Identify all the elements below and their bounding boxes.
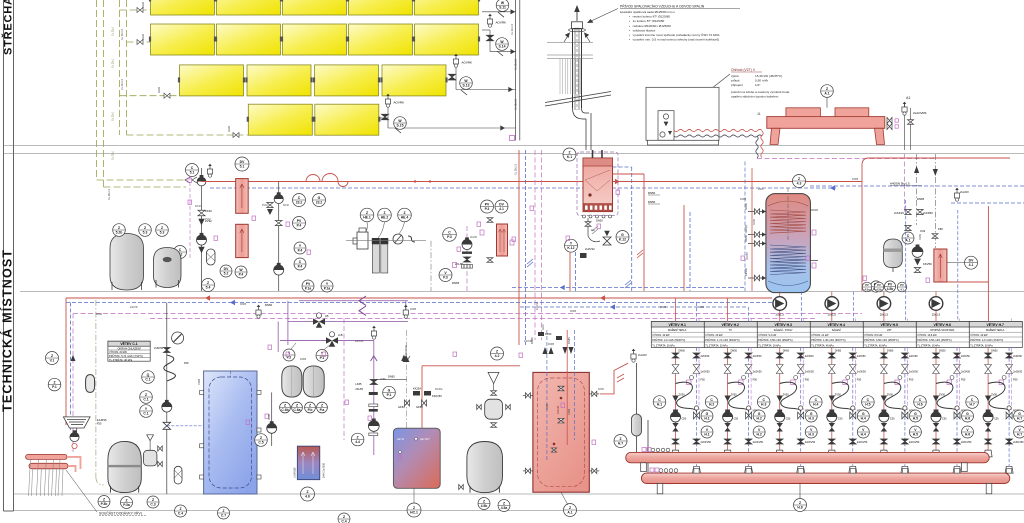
svg-text:C.4: C.4 [178, 511, 183, 515]
svg-text:VÝKON: 5,4 kW: VÝKON: 5,4 kW [758, 334, 777, 337]
svg-text:výkon: výkon [731, 74, 739, 78]
svg-text:H.5: H.5 [913, 432, 918, 436]
filter cartridge 1 [372, 238, 380, 244]
svg-text:H.1: H.1 [657, 402, 662, 406]
expansion vessel solar small [154, 248, 182, 288]
svg-text:VĚTEV H.1: VĚTEV H.1 [669, 322, 686, 327]
svg-text:S.11: S.11 [499, 6, 506, 10]
svg-text:Z: Z [152, 498, 154, 502]
air intake arrows [564, 34, 569, 42]
svg-text:DN50: DN50 [648, 191, 656, 195]
svg-text:KKV50: KKV50 [746, 252, 749, 260]
svg-text:GK50: GK50 [416, 405, 423, 409]
heat exchanger HX4 [934, 249, 947, 282]
svg-text:H.7: H.7 [618, 441, 623, 445]
svg-text:SOUČÁST DODÁVKY VŘV): SOUČÁST DODÁVKY VŘV) [99, 511, 142, 516]
return manifold [641, 473, 1009, 483]
svg-text:OTOPNÁ SOUSTAVA: OTOPNÁ SOUSTAVA [930, 329, 955, 332]
gauge Z K.1 [563, 148, 576, 161]
air vent on riser [71, 355, 76, 361]
svg-text:KK32: KK32 [195, 205, 202, 208]
chem dosing vessel [144, 450, 157, 466]
solar circulation pump [197, 233, 207, 245]
gauge Z V.1 [46, 352, 59, 365]
tank stubs [523, 394, 533, 396]
branch circuit H.3 [775, 348, 816, 474]
svg-text:KK50: KK50 [545, 332, 552, 336]
svg-text:AOVRK: AOVRK [462, 61, 473, 65]
svg-text:ZV32: ZV32 [262, 204, 268, 207]
svg-text:KK20: KK20 [228, 125, 231, 132]
riser pipes to plant room right [904, 104, 906, 150]
KK32 valve [198, 210, 205, 216]
chevrons on violet main [359, 296, 366, 315]
expansion vessel right [884, 239, 903, 268]
small dosing vessel right [485, 399, 503, 419]
gauge DV 4.1 [965, 256, 978, 269]
svg-text:H.5: H.5 [913, 416, 918, 420]
svg-text:DN65: DN65 [548, 343, 555, 346]
svg-text:5.2b: 5.2b [116, 230, 123, 234]
VZT internal coil group [658, 111, 674, 141]
svg-text:H.4: H.4 [861, 416, 866, 420]
VRV manifold bar 2 [29, 463, 68, 469]
boiler body [583, 158, 613, 212]
solar downcomer pipes to plant room [97, 0, 187, 187]
VRV manifold bar 1 [26, 454, 67, 459]
svg-text:5.2: 5.2 [224, 271, 229, 275]
svg-text:S.14: S.14 [499, 44, 506, 48]
svg-text:Z: Z [343, 515, 345, 519]
svg-text:H.5: H.5 [865, 402, 870, 406]
svg-text:P.a: P.a [320, 408, 325, 412]
svg-text:4.2: 4.2 [495, 354, 500, 358]
svg-text:VĚTEV H.5: VĚTEV H.5 [881, 322, 898, 327]
manifold sensor pods [642, 448, 678, 473]
svg-text:K.12: K.12 [619, 237, 626, 241]
small pressure vessel [86, 375, 95, 393]
svg-text:• 1x koleno 87° Ø125/80: • 1x koleno 87° Ø125/80 [629, 19, 664, 23]
svg-text:VĚTEV H.2: VĚTEV H.2 [722, 322, 739, 327]
svg-text:Z: Z [103, 497, 105, 501]
note leader arrow [589, 9, 618, 23]
svg-text:25x1,5: 25x1,5 [932, 313, 941, 317]
control wire to branch H.5 valve [906, 319, 908, 322]
svg-text:VÝKON: 20 kW: VÝKON: 20 kW [705, 334, 723, 337]
heating/cooling tank HC.1 [393, 428, 440, 488]
safety valve dial [172, 332, 184, 344]
mixing valve A5 [313, 313, 329, 328]
svg-text:DN50: DN50 [596, 219, 603, 223]
heater block A [786, 108, 821, 117]
svg-text:průtok: průtok [731, 79, 740, 83]
chimney cap [572, 22, 583, 29]
svg-text:A5: A5 [325, 314, 329, 318]
svg-text:Z: Z [383, 211, 385, 215]
lower distribution mains [66, 297, 772, 299]
svg-text:1/2": 1/2" [755, 83, 760, 87]
branch circuit H.7 [983, 348, 1024, 474]
boiler flue stubs [592, 150, 594, 158]
svg-text:K.1: K.1 [567, 155, 572, 159]
boiler pump branch [587, 218, 589, 236]
svg-text:H.4: H.4 [861, 432, 866, 436]
svg-text:VĚTEV H.7: VĚTEV H.7 [987, 322, 1004, 327]
svg-text:5.4: 5.4 [206, 285, 211, 289]
svg-text:K.12: K.12 [567, 246, 574, 250]
svg-text:SÁLENÍ: SÁLENÍ [832, 329, 841, 332]
cold water line [346, 240, 426, 242]
mid level separator [20, 291, 1024, 293]
svg-text:H.2: H.2 [756, 432, 761, 436]
svg-text:Z: Z [799, 501, 801, 505]
inlet fitting [408, 236, 415, 242]
svg-text:2xURS5: 2xURS5 [97, 418, 107, 422]
svg-text:3xKV: 3xKV [542, 324, 545, 330]
filter cartridge 2 [380, 238, 388, 244]
svg-text:KK32: KK32 [205, 209, 212, 213]
svg-text:A.B: A.B [338, 333, 343, 337]
svg-text:H.7: H.7 [1017, 432, 1022, 436]
svg-text:KKV50: KKV50 [744, 267, 748, 276]
svg-text:Z: Z [125, 498, 127, 502]
svg-text:2xAOV: 2xAOV [960, 190, 969, 194]
svg-text:25x1,5: 25x1,5 [775, 313, 784, 317]
svg-text:Z: Z [207, 281, 209, 285]
svg-text:TL.ZTRÁTA: 20 kPa: TL.ZTRÁTA: 20 kPa [705, 344, 728, 347]
solar collector row 2 [149, 24, 480, 55]
svg-text:25x1,5: 25x1,5 [880, 313, 889, 317]
svg-text:DN65: DN65 [660, 306, 667, 309]
svg-text:Cu 22x1,5: Cu 22x1,5 [121, 78, 124, 90]
vent down arrow [401, 355, 407, 361]
svg-text:Cu 22x1,5: Cu 22x1,5 [515, 58, 518, 70]
svg-text:H.6: H.6 [965, 416, 970, 420]
chiller circuit column [166, 303, 168, 346]
control riser dashed [189, 176, 191, 260]
svg-text:Z: Z [483, 499, 485, 503]
svg-text:H.4: H.4 [813, 402, 818, 406]
svg-text:Cu 22x1,5: Cu 22x1,5 [511, 23, 514, 35]
svg-text:Z: Z [798, 177, 800, 181]
svg-text:OKRUH CHLAZENÍ: OKRUH CHLAZENÍ [118, 346, 141, 350]
svg-text:Z: Z [51, 354, 53, 358]
svg-text:KK20: KK20 [158, 86, 161, 93]
svg-text:Cu 22x1: Cu 22x1 [112, 150, 115, 160]
supply manifold [626, 452, 990, 462]
svg-text:VĚTEV C.1: VĚTEV C.1 [120, 341, 137, 346]
note text: ohrivac VZT [731, 68, 790, 99]
svg-text:VÝKON: 21 kW: VÝKON: 21 kW [811, 334, 829, 337]
svg-text:Cu 28x1,5: Cu 28x1,5 [515, 98, 518, 110]
svg-text:5.3: 5.3 [160, 230, 165, 234]
svg-text:23.2: 23.2 [296, 200, 303, 204]
svg-text:A.1: A.1 [824, 91, 829, 95]
svg-text:potrubí na střeše a osazený vý: potrubí na střeše a osazený výměník bude [731, 90, 790, 94]
svg-text:PV: PV [297, 219, 302, 223]
gauges Y P.2 / Y P.1 [283, 349, 295, 361]
scattered tiny labels [96, 178, 859, 391]
svg-text:VÝKON: 10,6 kW: VÝKON: 10,6 kW [917, 334, 937, 337]
elbow tick marks [527, 259, 533, 267]
control line on roof [757, 158, 936, 160]
svg-text:Z: Z [284, 403, 286, 407]
boiler connection row [583, 215, 612, 223]
svg-text:DN65: DN65 [300, 358, 307, 361]
svg-text:Z: Z [619, 437, 621, 441]
svg-text:F50: F50 [184, 361, 189, 365]
svg-text:AOVRK: AOVRK [394, 101, 405, 105]
floor line upper [14, 493, 1024, 495]
svg-text:VĚTEV H.6: VĚTEV H.6 [934, 322, 951, 327]
svg-text:2xKK15: 2xKK15 [894, 211, 904, 215]
svg-text:P.3b: P.3b [101, 502, 108, 506]
svg-text:Z: Z [321, 403, 323, 407]
svg-text:G: G [388, 388, 391, 392]
svg-text:Z: Z [222, 509, 224, 513]
svg-text:P.3: P.3 [443, 275, 448, 279]
svg-text:4.5b: 4.5b [876, 287, 882, 291]
roof row labels [112, 26, 115, 160]
solar collector row 4 [247, 104, 381, 135]
sensor box at header foot [510, 136, 515, 141]
svg-text:C.4: C.4 [341, 519, 346, 523]
branch circuit H.4 [827, 348, 868, 474]
svg-text:Z: Z [366, 211, 368, 215]
svg-text:DN65: DN65 [198, 378, 201, 385]
boiler enclosure dashed [577, 152, 618, 216]
svg-text:A4DSN 5kv1,5: A4DSN 5kv1,5 [890, 182, 910, 186]
svg-text:PŘÍVOD SPALOVACÍHO VZDUCHU A O: PŘÍVOD SPALOVACÍHO VZDUCHU A ODVOD SPALI… [620, 4, 705, 9]
svg-text:C.3: C.3 [150, 502, 155, 506]
svg-text:F50: F50 [938, 227, 943, 231]
svg-text:2xKVR: 2xKVR [130, 306, 138, 309]
svg-text:TECHNICKÁ MÍSTNOST: TECHNICKÁ MÍSTNOST [0, 249, 15, 412]
flexible drops to duct [761, 131, 763, 157]
drawing frame sidebar [3, 0, 5, 511]
svg-text:2xKVR: 2xKVR [536, 302, 539, 310]
condensate dash line [95, 300, 97, 477]
rotated pipe size labels [108, 23, 922, 420]
svg-text:TL.ZTRÁTA: 30 kPa: TL.ZTRÁTA: 30 kPa [652, 344, 675, 347]
svg-text:Z: Z [569, 506, 571, 510]
expansion vessel solar big [110, 234, 144, 291]
svg-text:DV: DV [499, 202, 504, 206]
svg-text:HE.2: HE.2 [381, 215, 389, 219]
svg-text:HC.1: HC.1 [410, 510, 418, 514]
svg-text:DN65: DN65 [388, 375, 395, 379]
svg-text:H.7: H.7 [969, 402, 974, 406]
manifold legs [641, 463, 647, 472]
distribution risers mid [683, 205, 685, 291]
svg-text:LK(KV)50: LK(KV)50 [294, 467, 297, 478]
svg-text:TL.ZTRÁTA: 45 kPa: TL.ZTRÁTA: 45 kPa [811, 344, 834, 347]
control wire to branch H.4 valve [854, 319, 856, 322]
svg-text:V.1: V.1 [50, 358, 55, 362]
branch circuit H.6 [931, 348, 972, 474]
svg-text:pán OUT: pán OUT [420, 438, 430, 441]
svg-text:TV: TV [729, 329, 733, 332]
roof deck lines [547, 41, 593, 43]
svg-text:PV: PV [865, 283, 869, 287]
svg-text:P.3a: P.3a [123, 503, 130, 507]
svg-text:23.2: 23.2 [316, 200, 323, 204]
check pump [70, 430, 79, 441]
svg-text:SÁLENÍ - STOLY: SÁLENÍ - STOLY [774, 329, 793, 332]
gauge DV 5.1 [235, 157, 249, 171]
branch circuit H.5 [879, 348, 920, 474]
45deg elbow marks [637, 250, 643, 258]
svg-text:PRŪTOK: 1,36 m3/h (50/37°C): PRŪTOK: 1,36 m3/h (50/37°C) [811, 339, 845, 342]
svg-text:A.1: A.1 [905, 238, 910, 242]
svg-text:Z: Z [413, 506, 415, 510]
note text: combustion air / flue gas [620, 4, 740, 42]
svg-text:HE.4: HE.4 [401, 215, 409, 219]
svg-text:F50: F50 [97, 422, 102, 426]
svg-text:2xAOV: 2xAOV [638, 353, 647, 357]
svg-text:P.4: P.4 [239, 272, 244, 276]
svg-text:VÝKON: 8,5 kW: VÝKON: 8,5 kW [864, 334, 883, 337]
svg-text:4.5a: 4.5a [501, 506, 508, 510]
tank left feed pipes [744, 162, 746, 292]
chimney flue [573, 29, 592, 150]
branch circuit H.2 [723, 348, 764, 474]
svg-text:DN40: DN40 [96, 313, 103, 316]
svg-text:HE.1: HE.1 [363, 215, 371, 219]
svg-text:C.6a: C.6a [293, 408, 300, 412]
junction dots on main [414, 180, 416, 182]
svg-text:4.6: 4.6 [305, 494, 310, 498]
svg-text:TL.ZTRÁTA: 30 kPa: TL.ZTRÁTA: 30 kPa [917, 344, 940, 347]
svg-text:TL.ZTRÁTA: 30 kPa: TL.ZTRÁTA: 30 kPa [758, 344, 781, 347]
svg-text:PV: PV [900, 283, 904, 287]
control wire to branch H.2 valve [750, 319, 752, 322]
floor line lower [14, 510, 1024, 512]
branch table VETEV C.1 [108, 341, 150, 362]
sloped roof lines [545, 92, 611, 103]
svg-text:DN65: DN65 [567, 337, 571, 344]
svg-text:DN50: DN50 [648, 200, 656, 204]
svg-text:Cu 22x1,5: Cu 22x1,5 [121, 28, 124, 40]
svg-text:H.7: H.7 [1017, 416, 1022, 420]
boiler secondary risers [631, 167, 633, 291]
svg-text:G: G [318, 196, 321, 200]
right risers [987, 206, 989, 282]
red pipe tank to branch [600, 363, 628, 394]
svg-text:DV: DV [969, 259, 974, 263]
boiler terminal strip [583, 204, 613, 212]
expansion tank P.3 [108, 441, 141, 492]
VZT unit box [646, 87, 719, 140]
svg-text:2KL65: 2KL65 [355, 387, 363, 391]
return risers of branches up [801, 292, 803, 322]
solar heat exchanger HX2 [236, 224, 249, 257]
KK valves flags [413, 391, 420, 396]
svg-text:S.15: S.15 [397, 123, 404, 127]
svg-text:Cu 28x1,5: Cu 28x1,5 [108, 188, 111, 200]
svg-text:PRŪTOK: 0,56 m3/h (45/35°C): PRŪTOK: 0,56 m3/h (45/35°C) [864, 339, 898, 342]
svg-text:0,90 m³/h: 0,90 m³/h [755, 79, 768, 83]
svg-text:P.3: P.3 [447, 235, 452, 239]
svg-text:Z: Z [260, 436, 262, 440]
svg-text:TL.ZTRÁTA: 40 kPa: TL.ZTRÁTA: 40 kPa [109, 358, 133, 362]
svg-text:A1: A1 [906, 96, 910, 100]
svg-text:G: G [1018, 412, 1021, 416]
svg-text:2xZV32: 2xZV32 [585, 247, 595, 251]
svg-text:Z: Z [826, 87, 828, 91]
svg-text:15,46 kW (45/35°C): 15,46 kW (45/35°C) [755, 74, 782, 78]
control main dashed [73, 313, 862, 315]
svg-text:PV: PV [485, 202, 490, 206]
svg-text:PV: PV [306, 282, 311, 286]
svg-text:TL.ZTRÁTA: 30 kPa: TL.ZTRÁTA: 30 kPa [970, 344, 993, 347]
svg-text:KK50: KK50 [744, 203, 748, 210]
bottom manifold feed [647, 420, 649, 473]
main return line dashed [210, 187, 836, 189]
svg-text:P.4: P.4 [297, 223, 302, 227]
heat exchanger HX3 [497, 224, 508, 256]
svg-text:PRŪTOK: 1,72 m3/h (50/40°C): PRŪTOK: 1,72 m3/h (50/40°C) [705, 339, 739, 342]
svg-text:KK25A: KK25A [435, 388, 443, 391]
svg-text:VĚTEV H.3: VĚTEV H.3 [775, 322, 792, 327]
fitting column [373, 356, 375, 455]
svg-text:H.2: H.2 [709, 402, 714, 406]
svg-text:H.3: H.3 [809, 416, 814, 420]
svg-text:P.1a: P.1a [305, 286, 312, 290]
svg-text:VÝKON: 40 kW: VÝKON: 40 kW [970, 334, 988, 337]
solar pump group [186, 164, 199, 177]
svg-text:Z: Z [145, 393, 147, 397]
heat pump circuit violet piping [278, 301, 408, 356]
svg-text:DN65: DN65 [917, 197, 925, 201]
scattered sensor boxes [188, 178, 930, 459]
riser pumps 25x1.5 [779, 292, 781, 322]
red feed to HC tank [421, 366, 423, 428]
svg-text:KK65: KK65 [268, 413, 271, 420]
svg-text:C.1: C.1 [143, 411, 148, 415]
circulation pump right [912, 245, 923, 258]
wire: row valves left [137, 8, 239, 138]
roof heater bench [767, 117, 885, 129]
svg-text:A.1: A.1 [567, 510, 572, 514]
VRV connection pipes [65, 298, 67, 425]
svg-text:Z: Z [357, 435, 359, 439]
bench outlet valves [887, 118, 892, 124]
tank stubs right [810, 209, 818, 211]
svg-text:5.1: 5.1 [240, 164, 245, 168]
tank stubs [200, 390, 204, 394]
svg-text:DN65: DN65 [546, 403, 549, 410]
extra return main segment [512, 287, 745, 289]
chevron arrows on solar lines [185, 177, 197, 183]
svg-text:2xKK: 2xKK [758, 188, 764, 191]
bench leg right [875, 128, 885, 144]
svg-text:KK (R): KK (R) [744, 225, 748, 233]
pump C P.3 [466, 226, 468, 291]
svg-text:pán IN: pán IN [397, 438, 404, 441]
svg-text:PRŪTOK: 0,56 m3/h (45/35°C): PRŪTOK: 0,56 m3/h (45/35°C) [917, 339, 951, 342]
branch circuit H.1 [671, 348, 712, 474]
row 1 return: gauge W S11 [482, 11, 516, 13]
valve flags mid risers [538, 332, 544, 336]
note soucast dodavky VRV [66, 470, 97, 512]
svg-text:Z: Z [161, 226, 163, 230]
svg-text:Z: Z [306, 490, 308, 494]
svg-text:4.1: 4.1 [969, 263, 974, 267]
hot riser to roof heater [862, 158, 1010, 291]
svg-text:DN65: DN65 [852, 178, 859, 181]
svg-text:Z: Z [568, 150, 570, 154]
